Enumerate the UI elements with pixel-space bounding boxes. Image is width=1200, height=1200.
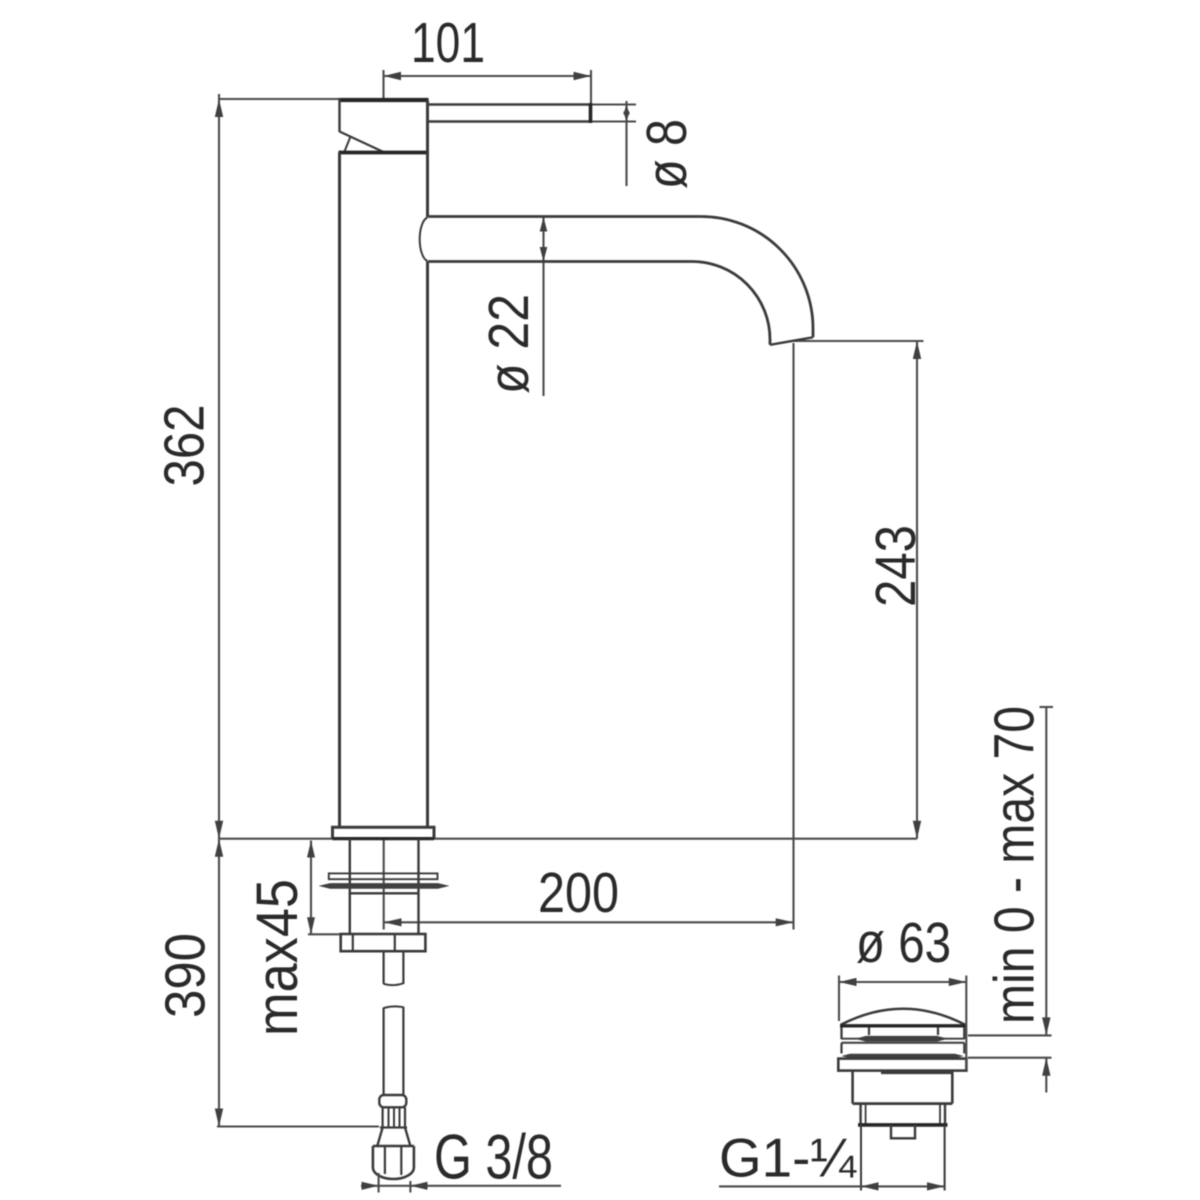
lever bar bottom [428,120,590,123]
drain mid inner right [939,1104,941,1125]
drain plate bottom line [842,1038,965,1040]
dimension G3/8 leader line [361,1185,561,1187]
hose nut facet right [400,1146,402,1175]
dimension 200 extension outlet axis [792,343,794,930]
drain tailpipe left [860,1125,862,1191]
drain mid bottom [858,1123,948,1127]
hose rib section right [404,1107,406,1127]
mounting nut facet right [394,934,396,951]
body right edge upper [426,100,429,217]
svg-text:max45: max45 [245,879,310,1036]
dimension 243 line [916,341,918,839]
handle cap left edge [338,98,340,132]
handle cap diagonal [340,132,384,153]
drain seal lens [855,1036,948,1042]
hose flare left [377,1128,382,1147]
drain body left [851,1071,854,1104]
dimension G1-1/4 arrow right [927,1182,945,1190]
dimension 243 arrow down [913,821,921,839]
spout inner edge [428,262,770,345]
drain upper plate right [963,1028,965,1040]
drain washer dark [842,1054,964,1059]
dimension min-max lower line [1045,1058,1047,1093]
hose nut left [372,1146,375,1168]
shank right edge [417,839,419,934]
dimension ø8 arrow up [623,105,629,115]
shank section line [349,892,420,894]
hose nut right [413,1146,416,1168]
dimension 243 extension line top [794,340,924,342]
dimension 362/390 vertical line [218,94,220,1127]
spout outlet face [770,337,813,345]
drain mid band right [963,1043,965,1054]
dimension 362 extension line top [219,98,339,100]
drain mid section left [859,1104,861,1125]
body right edge lower [426,262,429,828]
svg-text:min 0 - max 70: min 0 - max 70 [983,706,1047,1024]
dimension 200 extension faucet axis [383,839,385,930]
drain mid inner left [865,1104,867,1125]
hose nut top [373,1145,414,1148]
handle cap bottom [339,151,429,155]
hose rib section left [382,1107,384,1127]
rubber seal [319,883,450,889]
dimension 200 arrow left [384,918,402,926]
svg-text:390: 390 [154,933,218,1018]
hose flare step [380,1126,407,1128]
svg-text:ø 8: ø 8 [635,119,699,189]
spout joint arc [420,218,428,262]
dimension G3/8 extension left [378,1173,380,1193]
handle cap top [339,98,429,102]
dimension min-max upper line [1045,707,1047,1035]
hose nut facet left [384,1146,386,1174]
dimension 101 extension line left [382,70,384,100]
drain mid band top [842,1042,965,1044]
dimension ø8 extension line top [592,103,636,105]
dimension min-max extension lower [968,1057,1052,1059]
svg-text:G1-¼: G1-¼ [719,1127,857,1189]
dimension 362 arrow down [215,821,223,839]
dimension 101 arrow right [574,72,592,80]
hose nut bottom arc [373,1168,414,1180]
drain mid band left [840,1043,842,1054]
hose rib 1 [388,1108,390,1127]
drain body bottom [853,1102,953,1105]
supply hose break upper [384,983,404,985]
svg-text:200: 200 [538,861,619,925]
dimension ø63 extension left [838,976,840,1022]
dimension ø8 line [625,101,627,186]
dimension ø63 line [839,981,966,983]
dimension ø22 arrow up [540,217,548,232]
dimension ø63 extension right [965,976,967,1070]
dimension G1-1/4 arrow left [861,1182,879,1190]
drain plate tick right [937,1028,939,1036]
dimension 101 line [384,75,592,77]
dimension ø63 arrow left [839,978,857,986]
handle cap notch [345,137,351,152]
base flange bottom [333,837,435,840]
dimension ø8 extension line bottom [592,120,636,122]
dimension ø8 arrow down [623,112,629,122]
dimension max45 line [310,841,312,935]
dimension 101 extension line right [590,70,592,104]
hose collar [379,1095,406,1107]
mounting nut facet left [352,934,354,951]
hose rib 2 [393,1108,395,1127]
supply hose upper right [402,951,404,984]
supply hose upper left [383,951,385,984]
lever bar top [428,103,590,106]
drain body shadow line [881,1072,951,1075]
shank left edge [349,839,351,934]
dimension max45 arrow up [307,841,315,858]
drain mid section right [944,1104,946,1125]
supply hose break lower [384,1006,404,1008]
svg-text:243: 243 [864,525,928,607]
svg-text:ø 22: ø 22 [477,294,541,394]
hose rib 3 [399,1108,401,1127]
dimension min-max arrow up [1042,1058,1050,1076]
supply hose lower left [383,1008,385,1096]
mounting nut [341,934,426,951]
drain tailpipe right [944,1125,946,1191]
svg-text:ø 63: ø 63 [856,911,951,975]
dimension ø63 arrow right [949,978,967,986]
drain upper plate left [840,1028,842,1040]
dimension min-max top tick [1040,706,1054,708]
dimension G3/8 extension right [409,1181,411,1193]
dimension G3/8 arrow right [410,1182,427,1190]
supply hose lower right [402,1007,404,1095]
lever bar end cap [589,103,593,123]
spout outer edge [428,217,813,338]
dimension max45 arrow down [307,917,315,934]
washer [329,873,438,879]
base flange [333,827,435,838]
dimension 243 arrow up [913,341,921,359]
drain cap base [840,1024,966,1027]
svg-text:362: 362 [153,405,217,487]
dimension 362 arrow up [215,99,223,117]
dimension 200 line [384,921,794,923]
body left edge [338,153,341,828]
hose flare right [405,1128,410,1147]
dimension 390 arrow down [215,1109,223,1127]
drain notch [891,1125,915,1138]
drain dome cap [841,1009,965,1025]
deck reference line [219,838,917,840]
drain plate tick left [868,1028,870,1036]
dimension min-max extension upper [968,1034,1052,1036]
dimension G3/8 arrow left [362,1182,379,1190]
dimension 200 arrow right [776,918,794,926]
dimension min-max arrow down [1042,1017,1050,1035]
dimension max45 extension line [308,933,342,935]
drain body right [951,1071,954,1104]
dimension 101 arrow left [384,72,402,80]
dimension 390 extension line bottom [217,1125,379,1127]
drain flange [838,1059,966,1071]
svg-text:101: 101 [411,11,485,75]
svg-text:G 3/8: G 3/8 [434,1123,553,1193]
dimension ø22 line [542,217,544,397]
dimension 390 arrow up [215,839,223,857]
dimension ø22 arrow down [540,247,548,262]
dimension G1-1/4 leader line [719,1185,945,1187]
